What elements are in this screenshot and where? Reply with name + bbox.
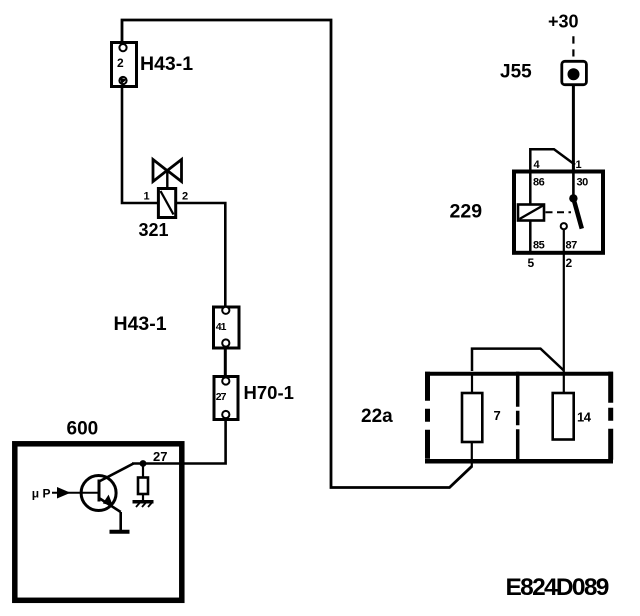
svg-text:J55: J55 — [500, 62, 532, 83]
svg-text:7: 7 — [494, 408, 501, 423]
svg-text:229: 229 — [450, 201, 483, 223]
svg-text:H70-1: H70-1 — [244, 382, 294, 403]
svg-text:321: 321 — [139, 220, 169, 240]
svg-text:30: 30 — [577, 177, 589, 189]
svg-text:600: 600 — [67, 419, 99, 440]
svg-text:1: 1 — [144, 191, 150, 203]
svg-text:1: 1 — [576, 159, 582, 171]
svg-text:27: 27 — [216, 391, 227, 403]
svg-text:2: 2 — [117, 56, 124, 70]
svg-text:2: 2 — [566, 256, 573, 270]
svg-text:22a: 22a — [361, 406, 393, 427]
svg-text:E824D089: E824D089 — [506, 574, 609, 601]
svg-text:41: 41 — [216, 321, 227, 333]
svg-text:85: 85 — [533, 240, 545, 252]
svg-text:μ P: μ P — [32, 487, 51, 501]
svg-text:27: 27 — [153, 449, 167, 464]
svg-text:H43-1: H43-1 — [114, 313, 167, 335]
svg-text:86: 86 — [533, 177, 545, 189]
svg-text:5: 5 — [528, 256, 535, 270]
svg-text:+30: +30 — [548, 12, 579, 32]
svg-text:H43-1: H43-1 — [140, 53, 193, 75]
svg-text:14: 14 — [577, 410, 592, 425]
svg-text:87: 87 — [566, 240, 578, 252]
svg-text:4: 4 — [534, 159, 541, 171]
svg-text:2: 2 — [182, 191, 188, 203]
